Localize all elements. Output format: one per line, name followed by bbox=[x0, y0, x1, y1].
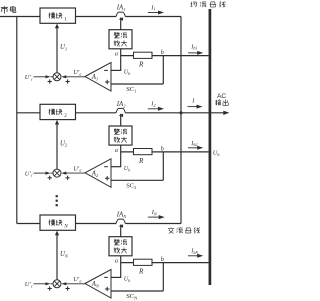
svg-text:b: b bbox=[161, 145, 164, 152]
svg-text:b: b bbox=[161, 256, 164, 263]
svg-text:N: N bbox=[63, 224, 68, 230]
svg-text:a: a bbox=[115, 258, 118, 265]
svg-text:a: a bbox=[115, 147, 118, 154]
svg-text:2: 2 bbox=[64, 113, 67, 119]
svg-text:AC: AC bbox=[217, 93, 226, 100]
svg-text:R: R bbox=[138, 61, 144, 69]
svg-text:R: R bbox=[138, 268, 144, 276]
svg-text:b: b bbox=[161, 49, 164, 56]
svg-text:1: 1 bbox=[64, 17, 67, 23]
svg-text:R: R bbox=[138, 157, 144, 165]
svg-text:a: a bbox=[115, 51, 118, 58]
